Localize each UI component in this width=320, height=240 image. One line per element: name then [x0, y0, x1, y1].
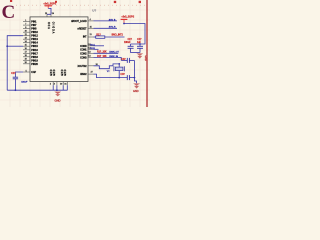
svg-text:X32K_OT: X32K_OT — [109, 52, 119, 54]
svg-text:I2C1: I2C1 — [90, 44, 95, 46]
svg-text:GND: GND — [62, 69, 64, 76]
node gnd junction — [56, 89, 58, 91]
svg-text:15: 15 — [90, 27, 92, 29]
svg-text:12: 12 — [25, 34, 27, 36]
wire CON3 to crystal cap row — [94, 57, 122, 60]
svg-text:1: 1 — [25, 20, 26, 22]
svg-text:CON0: CON0 — [80, 46, 87, 48]
capacitor C3? top — [121, 58, 134, 63]
wire 3v3 rail to caps — [124, 24, 145, 45]
left pins PIN1..PIN20 — [23, 22, 30, 64]
svg-text:100nF: 100nF — [124, 42, 131, 44]
svg-text:4: 4 — [90, 19, 91, 21]
svg-text:PIN19: PIN19 — [31, 60, 38, 62]
crystal Y? — [107, 66, 125, 73]
svg-text:PIN20: PIN20 — [31, 64, 38, 66]
svg-text:8: 8 — [25, 27, 26, 29]
wire XIN32 to cap row — [94, 74, 128, 78]
svg-text:GND: GND — [133, 90, 139, 93]
wire left bus to PIN12 — [7, 36, 23, 90]
right pin CON2 — [88, 52, 94, 54]
svg-text:CON3: CON3 — [80, 57, 87, 59]
svg-text:GND: GND — [51, 69, 53, 76]
capacitor C1? 1uF — [137, 39, 143, 53]
svg-text:1uF: 1uF — [137, 42, 142, 44]
svg-text:CAP: CAP — [31, 71, 36, 74]
svg-text:C1?: C1? — [11, 73, 16, 75]
wire left bus to PIN15 — [7, 45, 23, 47]
wire nBOOT_LOAD — [94, 20, 118, 22]
svg-text:21: 21 — [90, 34, 92, 36]
svg-text:PIN17: PIN17 — [31, 53, 38, 55]
sheet border right edge — [146, 0, 148, 107]
svg-text:14: 14 — [25, 41, 27, 43]
svg-text:13: 13 — [88, 52, 90, 54]
svg-text:R1?_10K: R1?_10K — [97, 56, 107, 58]
svg-text:100nF: 100nF — [21, 82, 28, 84]
svg-text:27: 27 — [91, 71, 93, 73]
right pin CON0 — [88, 45, 94, 47]
node C18 junction — [139, 43, 141, 45]
pin VDD top stub — [46, 14, 48, 17]
wire crystal gnd rail — [134, 60, 136, 83]
svg-text:PIN15: PIN15 — [31, 46, 38, 48]
svg-text:31: 31 — [64, 84, 66, 86]
wire CON0 — [94, 45, 105, 47]
svg-text:2: 2 — [50, 84, 51, 86]
svg-text:PIN12: PIN12 — [31, 36, 38, 38]
svg-text:PIN1: PIN1 — [31, 22, 37, 24]
svg-text:GND: GND — [54, 69, 56, 76]
wire INT to R — [94, 36, 96, 38]
svg-text:C1?: C1? — [128, 39, 133, 41]
svg-text:GND: GND — [55, 98, 61, 102]
ground symbol GND center — [54, 92, 61, 103]
svg-text:+3v3_SGPS: +3v3_SGPS — [43, 3, 56, 5]
wire nRESET — [94, 27, 118, 29]
right pin INT — [88, 36, 94, 38]
svg-text:30: 30 — [60, 84, 62, 86]
svg-text:CON1: CON1 — [80, 49, 87, 51]
node cap junction — [15, 89, 17, 91]
right pin CON1 — [88, 48, 94, 50]
svg-text:PIN10: PIN10 — [31, 32, 38, 34]
svg-text:XOUT32: XOUT32 — [78, 66, 88, 68]
svg-text:PIN14: PIN14 — [31, 43, 38, 45]
node crystal bottom — [118, 77, 120, 79]
node bus junction — [6, 45, 8, 47]
right pin XOUT32 — [88, 65, 94, 67]
svg-text:20: 20 — [25, 62, 27, 64]
svg-text:3: 3 — [54, 84, 55, 86]
svg-text:18: 18 — [25, 55, 27, 57]
right pin nBOOT_LOAD — [88, 20, 94, 22]
svg-text:7: 7 — [25, 24, 26, 26]
pin name GND verticals — [51, 69, 67, 76]
svg-text:3V3_R: 3V3_R — [109, 27, 116, 29]
svg-text:+3v3_SGPS: +3v3_SGPS — [121, 16, 134, 18]
node power junction — [123, 23, 125, 25]
svg-text:14: 14 — [88, 56, 90, 58]
right pin XIN32 — [88, 73, 94, 75]
svg-text:PIN18: PIN18 — [31, 57, 38, 59]
svg-text:CON2: CON2 — [80, 53, 87, 55]
svg-text:R1?: R1? — [96, 34, 101, 36]
svg-text:PIN8: PIN8 — [31, 29, 37, 31]
wire R to end — [105, 36, 125, 38]
capacitor C19 100nF — [11, 73, 28, 84]
wire CON2 — [94, 52, 119, 54]
power port +3v3_SGPS (top) — [43, 3, 56, 8]
grid — [0, 0, 150, 107]
svg-text:XIN32: XIN32 — [80, 74, 87, 76]
ground symbol GND right — [133, 83, 140, 93]
zone divider dotted line — [16, 4, 146, 6]
svg-text:C: C — [2, 2, 16, 23]
svg-text:PIN13: PIN13 — [31, 39, 38, 41]
resistor R1? — [96, 36, 105, 38]
svg-text:U?: U? — [92, 9, 96, 13]
node crystal top — [118, 63, 120, 65]
pin GND bottom stubs — [53, 82, 67, 86]
capacitor C1? 100nF — [124, 39, 134, 53]
right pin nRESET — [88, 27, 94, 29]
pin CAP — [23, 71, 30, 73]
svg-text:nRESET: nRESET — [78, 28, 88, 30]
wire power to VDD pins — [47, 8, 51, 14]
wire XOUT32 to crystal — [94, 64, 120, 69]
wire crystal bottom lead — [118, 71, 120, 78]
svg-text:15: 15 — [25, 45, 27, 47]
svg-text:R1?_10K: R1?_10K — [97, 52, 107, 54]
wire C19 to ground rail — [14, 79, 16, 90]
svg-text:16: 16 — [25, 48, 27, 50]
svg-text:GND: GND — [65, 69, 67, 76]
svg-text:10: 10 — [25, 31, 27, 33]
svg-text:I2C0: I2C0 — [90, 48, 95, 50]
svg-text:VDD: VDD — [49, 21, 51, 29]
svg-text:3V3_B: 3V3_B — [109, 19, 116, 21]
capacitor C3? bottom — [121, 74, 135, 80]
border tick marks top — [10, 0, 12, 2]
ground symbol GND top right — [136, 53, 147, 61]
svg-text:C3?: C3? — [121, 59, 126, 61]
svg-text:C3?: C3? — [121, 74, 126, 76]
svg-text:19: 19 — [25, 59, 27, 61]
svg-text:5: 5 — [26, 70, 27, 72]
svg-text:GND: GND — [144, 55, 147, 61]
wire bottom ground rail — [7, 89, 67, 91]
svg-text:24: 24 — [52, 13, 54, 15]
wire CAP to C19 — [15, 72, 23, 77]
svg-text:VDDIO: VDDIO — [54, 21, 56, 33]
svg-text:INT: INT — [83, 37, 87, 39]
svg-text:13: 13 — [25, 38, 27, 40]
svg-text:23: 23 — [45, 13, 47, 15]
wire GND pins down — [53, 85, 67, 90]
power port +3v3_SGPS (right) — [121, 16, 135, 23]
svg-text:BNO_INT2: BNO_INT2 — [112, 35, 124, 37]
pin VDDIO top stub — [50, 14, 52, 17]
svg-text:X32K_IN: X32K_IN — [109, 56, 118, 58]
wire CON1 — [94, 48, 99, 50]
svg-text:C1?: C1? — [137, 39, 142, 41]
right pin CON3 — [88, 56, 94, 58]
svg-text:nBOOT_LOAD: nBOOT_LOAD — [71, 20, 87, 23]
wire caps to gnd — [131, 52, 140, 54]
svg-text:17: 17 — [25, 52, 27, 54]
node rail junction — [134, 77, 136, 79]
svg-text:PIN16: PIN16 — [31, 50, 38, 52]
op IC U? body — [30, 17, 88, 82]
svg-text:PIN7: PIN7 — [31, 25, 37, 27]
